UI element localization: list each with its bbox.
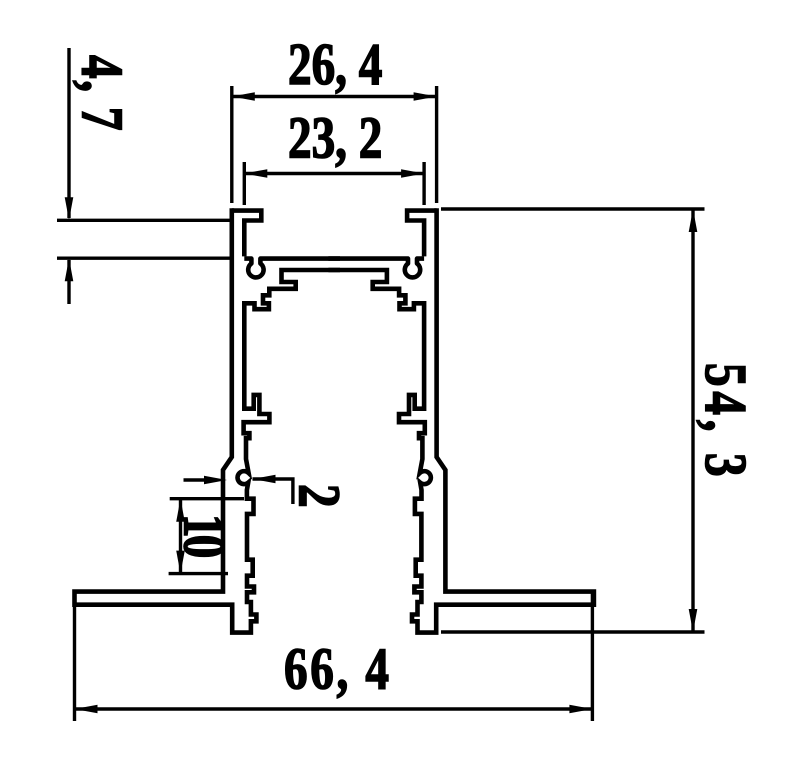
arrowhead 4,7 top (65, 197, 74, 220)
arrowhead 23,2 right (401, 169, 424, 178)
extension lines for dimension 54,3 (441, 209, 705, 632)
svg-text:54, 3: 54, 3 (693, 363, 759, 481)
svg-text:2: 2 (286, 484, 352, 508)
dimension line 54,3 (691, 209, 694, 632)
arrowhead 26,4 right (414, 92, 437, 101)
extension lines for dimension 23,2 (244, 162, 424, 205)
arrowhead 4,7 bottom (65, 258, 74, 281)
dimension line 66,4 (75, 707, 593, 710)
extension lines for dimension 66,4 (75, 592, 593, 721)
arrowhead 2 left (204, 476, 227, 485)
dimension line 26,4 (232, 95, 437, 98)
dimension line 4,7 (outside tails) (67, 48, 70, 304)
arrowhead 23,2 left (244, 169, 267, 178)
arrowhead 54,3 top (689, 209, 698, 232)
dimension line 10 (179, 499, 182, 574)
svg-text:4, 7: 4, 7 (69, 55, 135, 132)
arrowhead 54,3 bottom (689, 609, 698, 632)
profile cross-section left half (75, 208, 341, 632)
arrowhead 2 right (253, 475, 276, 484)
extension lines for dimension 10 (169, 499, 244, 574)
arrowhead 66,4 right (569, 705, 592, 714)
extension lines for dimension 4,7 (57, 220, 230, 258)
svg-text:26, 4: 26, 4 (288, 31, 382, 97)
leader line left for dimension 2 (184, 478, 209, 481)
leader line right for dimension 2 (253, 479, 293, 504)
dimension line 23,2 (244, 172, 424, 175)
arrowhead 26,4 left (232, 92, 255, 101)
svg-text:23, 2: 23, 2 (288, 104, 382, 170)
arrowhead 10 top (176, 499, 185, 522)
extension lines for dimension 26,4 (232, 86, 437, 203)
svg-text:10: 10 (171, 514, 237, 557)
svg-text:66, 4: 66, 4 (284, 635, 392, 701)
arrowhead 66,4 left (75, 705, 98, 714)
arrowhead 10 bottom (176, 551, 185, 574)
profile cross-section right half (mirrored) (328, 208, 594, 632)
